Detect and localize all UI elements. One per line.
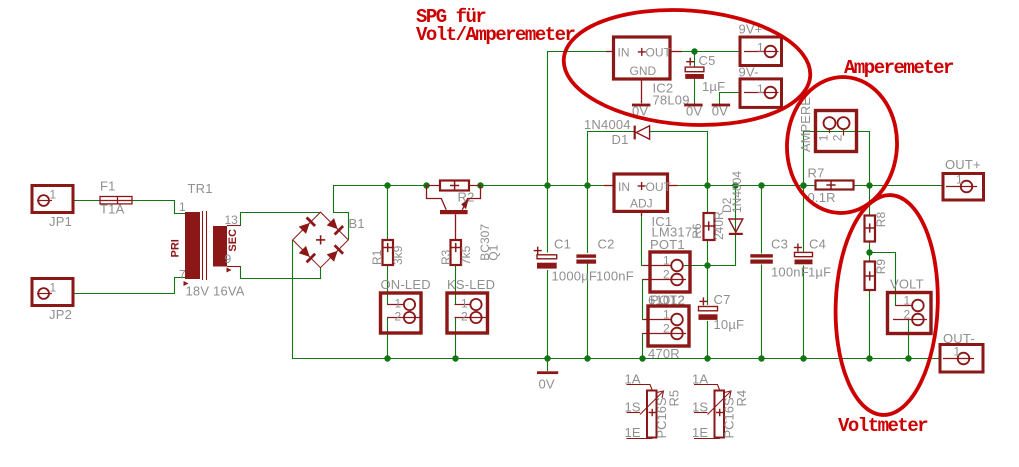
wire POT2 pin2 drop [642, 334, 644, 359]
junction dot R8 R9 node [866, 249, 872, 255]
resistor R2 [427, 181, 481, 191]
svg-text:0V: 0V [539, 377, 555, 392]
ground 0V under C5 [684, 104, 702, 107]
svg-text:10µF: 10µF [714, 317, 745, 332]
svg-text:R7: R7 [808, 166, 825, 181]
wire D1 bypass left [588, 132, 634, 186]
svg-text:1: 1 [956, 173, 963, 187]
capacitor C1 [534, 247, 557, 269]
svg-text:1N4004: 1N4004 [584, 117, 631, 132]
svg-text:T1A: T1A [100, 202, 125, 217]
svg-text:2: 2 [904, 308, 911, 322]
wire SEC pin13 to bridge top corner [241, 213, 321, 226]
wire IC1 ADJ drop [641, 214, 643, 266]
capacitor C5 [685, 58, 704, 79]
wire 9V- to ground [720, 93, 741, 104]
ground 0V bottom [537, 371, 558, 374]
svg-text:1: 1 [50, 281, 57, 295]
connector JP2 [32, 279, 73, 306]
svg-text:ADJ: ADJ [630, 197, 653, 211]
wire C5 top [694, 52, 696, 67]
wire bridge left corner down to bottom rail [292, 241, 294, 359]
wire AMPERE pin wire to rail [803, 132, 805, 186]
svg-text:1E: 1E [692, 425, 708, 440]
diode SW of B1 [298, 245, 316, 263]
wire rail to R8 [869, 186, 871, 216]
svg-text:1A: 1A [692, 372, 708, 387]
svg-text:POT1: POT1 [650, 237, 685, 252]
diode D2 [729, 219, 743, 235]
svg-text:R3: R3 [439, 249, 453, 265]
svg-text:1S: 1S [625, 400, 641, 415]
svg-text:IN: IN [618, 180, 630, 194]
wire IC2 IN drop [548, 52, 607, 186]
svg-text:2: 2 [461, 310, 468, 324]
wire AMPERE horizontal and right drop [804, 132, 870, 186]
wire C3 to bottom rail [761, 265, 763, 359]
svg-text:1: 1 [461, 297, 468, 311]
wire C4 to bottom rail [803, 266, 805, 359]
svg-text:3k9: 3k9 [391, 245, 405, 265]
wire POT1 pin2 to POT2 pin1 [642, 280, 644, 320]
fuse F1 [100, 197, 132, 204]
svg-text:Voltmeter: Voltmeter [838, 415, 928, 437]
wire fuse to transformer pin1 [132, 201, 185, 214]
capacitor C3 [750, 254, 773, 264]
capacitor C7 [699, 297, 718, 320]
wire rail through D2 to ADJ node [735, 186, 737, 266]
wire rail to R6 [707, 186, 709, 214]
capacitor C4 [794, 244, 813, 265]
svg-text:1: 1 [663, 308, 670, 322]
svg-text:Volt/Amperemeter: Volt/Amperemeter [416, 24, 576, 46]
wire rail to C4 [803, 186, 805, 252]
wire R6 to ADJ node [707, 240, 709, 266]
regulator IC2 78L09 [606, 37, 682, 103]
wire C5 bottom to ground [694, 79, 696, 103]
regulator IC1 [604, 174, 678, 216]
wire R8R9 node to VOLT pin1 [870, 253, 913, 306]
svg-text:R6: R6 [690, 223, 704, 239]
junction dot IC2 out node [691, 48, 697, 54]
wire KS-LED pin2 to bottom rail [455, 318, 457, 359]
red ellipse SPG [560, 2, 814, 133]
wire VOLT pin2 drop [908, 320, 910, 359]
connector JP1 [32, 186, 73, 213]
wire rail to C2 [587, 186, 589, 253]
svg-text:1N4004: 1N4004 [730, 171, 744, 213]
svg-text:1: 1 [50, 188, 57, 202]
resistor R8 [865, 216, 876, 242]
svg-text:C2: C2 [598, 237, 615, 252]
svg-text:1: 1 [179, 200, 186, 214]
junction dot ADJ node [704, 262, 710, 268]
transistor Q1 [427, 186, 481, 210]
svg-text:C7: C7 [714, 292, 731, 307]
svg-text:7k5: 7k5 [459, 245, 473, 265]
svg-text:2: 2 [395, 310, 402, 324]
svg-text:F1: F1 [100, 179, 116, 194]
svg-text:2: 2 [831, 134, 845, 141]
svg-text:2: 2 [663, 268, 670, 282]
svg-text:VOLT: VOLT [890, 277, 924, 292]
svg-text:R4: R4 [734, 390, 749, 407]
bridge rectifier B1 [293, 212, 349, 268]
svg-text:1S: 1S [692, 400, 708, 415]
wire JP2 to transformer pin7 [73, 278, 185, 294]
svg-text:OUT: OUT [646, 180, 672, 194]
wire rail to R1 [387, 186, 389, 241]
svg-text:13: 13 [225, 213, 239, 227]
svg-text:GND: GND [630, 64, 657, 78]
potentiometer R4 [694, 385, 731, 439]
wire D1 bypass right [650, 132, 708, 186]
svg-text:100nF: 100nF [596, 269, 634, 284]
wire ADJ node to C7 [707, 266, 709, 305]
svg-text:78L09: 78L09 [653, 93, 690, 108]
transformer TR1 [184, 211, 241, 286]
ground 0V under IC2 [632, 104, 650, 107]
svg-text:R5: R5 [667, 390, 682, 407]
svg-text:240R: 240R [712, 211, 726, 240]
svg-text:470R: 470R [648, 346, 680, 361]
diode NE of B1 [326, 218, 344, 236]
potentiometer R5 [627, 385, 664, 439]
svg-text:C1: C1 [554, 237, 571, 252]
svg-text:1: 1 [904, 294, 911, 308]
svg-text:R8: R8 [874, 212, 888, 228]
svg-text:OUT: OUT [646, 46, 672, 60]
svg-text:1: 1 [817, 134, 831, 141]
red ellipse Voltmeter [832, 193, 942, 416]
wire C7 to bottom rail [707, 322, 709, 359]
svg-text:R9: R9 [874, 259, 888, 275]
diode SE of B1 [326, 244, 344, 262]
svg-text:OUT+: OUT+ [945, 157, 981, 172]
svg-text:IN: IN [618, 46, 630, 60]
svg-text:B1: B1 [349, 216, 365, 231]
wire C1 to bottom rail and ground [547, 271, 549, 371]
ground 0V under 9V- [712, 104, 730, 107]
svg-text:C3: C3 [771, 237, 788, 252]
svg-text:7: 7 [179, 268, 186, 282]
svg-text:Amperemeter: Amperemeter [844, 57, 954, 79]
svg-text:KS-LED: KS-LED [447, 277, 495, 292]
svg-text:C4: C4 [809, 237, 826, 252]
wire R3 to KS-LED pin1 [456, 265, 471, 305]
svg-text:1: 1 [663, 254, 670, 268]
wire R9 to bottom rail [869, 290, 871, 359]
resistor R1 [383, 240, 394, 265]
svg-text:9V-: 9V- [739, 65, 759, 80]
svg-text:1A: 1A [625, 372, 641, 387]
svg-text:PRI: PRI [170, 239, 182, 257]
svg-text:R1: R1 [370, 249, 384, 265]
svg-text:1: 1 [395, 297, 402, 311]
svg-text:Q1: Q1 [487, 244, 501, 260]
resistor R9 [865, 262, 876, 291]
wire R8 to R9 [869, 242, 871, 262]
wire rail to C1 [547, 186, 549, 253]
svg-text:1000µF: 1000µF [552, 269, 598, 284]
wire rail start to bridge plus corner [334, 186, 349, 240]
svg-text:D1: D1 [612, 132, 629, 147]
wire bridge bottom corner stub [320, 268, 322, 279]
wire JP1 to fuse [73, 200, 100, 202]
svg-text:1: 1 [757, 82, 764, 96]
svg-text:0V: 0V [712, 104, 728, 119]
wire SEC pin9 to lower node [241, 267, 321, 279]
diode NW of B1 [298, 217, 316, 235]
svg-text:1: 1 [954, 345, 961, 359]
wire C2 to bottom rail [587, 264, 589, 359]
svg-text:JP2: JP2 [49, 307, 72, 322]
plus mark B1 [316, 235, 325, 244]
svg-text:1µF: 1µF [808, 265, 831, 280]
svg-text:2: 2 [663, 322, 670, 336]
diode D1 [634, 126, 650, 140]
wire ADJ node horizontal [642, 265, 736, 267]
svg-text:TR1: TR1 [188, 181, 213, 196]
svg-text:C5: C5 [699, 53, 716, 68]
svg-text:9: 9 [225, 252, 232, 266]
wire ON-LED pin2 to bottom rail [387, 318, 389, 359]
svg-text:0V: 0V [686, 104, 702, 119]
red ellipse Amperemeter [784, 74, 901, 216]
svg-text:JP1: JP1 [49, 214, 72, 229]
svg-text:1E: 1E [625, 425, 641, 440]
svg-text:18V 16VA: 18V 16VA [186, 284, 245, 299]
wire top rail [334, 185, 944, 187]
wire IC2 OUT to 9V+ [682, 51, 740, 53]
resistor R6 [704, 213, 715, 240]
resistor R3 [451, 240, 462, 265]
junction dots top rail [384, 182, 390, 188]
svg-text:1µF: 1µF [702, 79, 725, 94]
svg-text:ON-LED: ON-LED [381, 277, 431, 292]
svg-text:SEC: SEC [227, 229, 239, 252]
wire R1 to ON-LED pin1 [388, 265, 404, 305]
capacitor C2 [576, 254, 596, 263]
junction dots bottom rail [384, 355, 390, 361]
wire rail to C3 [761, 186, 763, 254]
svg-text:100nF: 100nF [771, 265, 809, 280]
wire bottom rail [293, 358, 941, 360]
svg-text:1: 1 [757, 41, 764, 55]
